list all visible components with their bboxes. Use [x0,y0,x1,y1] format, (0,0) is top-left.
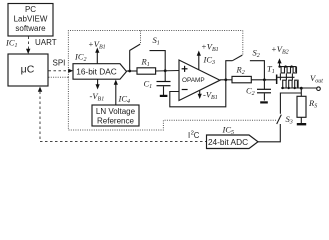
svg-text:16-bit DAC: 16-bit DAC [76,67,117,77]
T1 cell 1 [278,65,280,67]
ground (C1) [160,95,168,97]
T1 cell 2 [284,65,286,67]
switch S1 bypass [129,51,131,71]
supply -VB1 arrow (DAC) [97,79,99,85]
svg-text:software: software [15,24,46,33]
svg-text:24-bit ADC: 24-bit ADC [208,137,248,147]
UART arrowhead [26,49,30,54]
node Vout terminal [317,87,321,91]
T1 source rail continuing to Vout [281,87,317,89]
LN Voltage Reference block [92,105,139,126]
capacitor C1 [164,71,166,82]
svg-text:μC: μC [21,64,35,76]
wire SPI dashed link [49,70,69,72]
switch S2 bypass [226,61,233,80]
resistor R2 [232,76,251,82]
svg-text:OPAMP: OPAMP [182,77,205,84]
SPI arrowhead [68,69,73,73]
T1 cell 3 [290,65,292,67]
node left of R1 [128,70,131,73]
capacitor C2 [263,80,265,89]
wire I2C return dashed [38,87,42,92]
supply -VB1 arrow (opamp) [199,90,201,95]
svg-text:UART: UART [35,38,57,47]
PC LabVIEW software block [8,4,53,37]
node R1/C1 [164,69,167,72]
wire R1 to opamp [156,70,179,73]
svg-text:C: C [194,131,200,140]
wire switch-control dotted rail [68,31,242,78]
resistor RS [300,87,303,90]
svg-text:LN Voltage: LN Voltage [96,107,136,116]
ground (C2) [260,101,268,103]
supply +VB1 arrow (DAC) [96,52,98,64]
node opamp output [224,78,227,81]
svg-text:SPI: SPI [53,59,66,68]
wire opamp output [220,79,232,81]
wire R2 to T1 gate [251,79,276,81]
svg-text:Reference: Reference [97,116,134,125]
node R2/C2 [263,78,266,81]
wire control run to S3 [68,77,276,130]
supply +VB1 arrow (opamp) [198,55,200,70]
wire control drop to S2 [242,31,244,55]
resistor R1 [137,68,156,74]
wire LN reference to DAC arrow [115,84,117,106]
wire control drop to S1 [140,31,142,44]
wire DAC output [127,70,138,72]
wire feedback loop [170,80,226,107]
microcontroller uC block [8,54,48,86]
ground (RS) [297,123,306,125]
supply +VB2 arrow [279,63,281,67]
switch S3 to ADC [280,93,301,114]
T1 gate rail [277,76,294,78]
op-amp IC3 [179,60,220,101]
T1 gate bar [276,75,278,85]
DAC IC2 16-bit DAC [73,64,127,79]
wire switch-control from uC [49,76,69,78]
svg-text:LabVIEW: LabVIEW [14,15,48,24]
ADC IC5 24-bit ADC [207,135,259,149]
svg-text:PC: PC [25,5,36,14]
T1 drain rail [279,67,296,72]
wire UART dashed link [28,37,30,50]
